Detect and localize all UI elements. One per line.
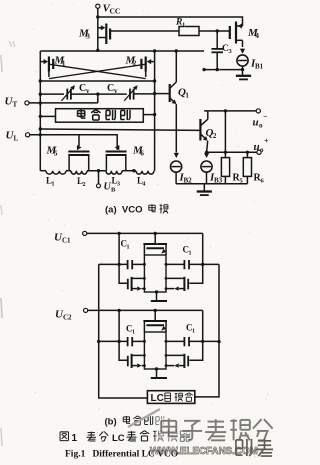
wire M3 gate to R1: [110, 30, 179, 32]
inductors L1 L2 L3 L4: [40, 170, 46, 172]
svg-text:2: 2: [213, 132, 217, 140]
transistor M4: [229, 26, 231, 39]
transistor Q1: [155, 93, 170, 95]
transistor top PMOS: [154, 310, 156, 320]
svg-text:1: 1: [192, 329, 195, 335]
svg-text:v: v: [86, 87, 90, 95]
wire right gate feed: [189, 233, 202, 283]
svg-text:1: 1: [127, 245, 130, 251]
transistor NMOS right: [187, 279, 189, 290]
wire UC1 rail: [87, 232, 203, 234]
svg-text:v: v: [114, 87, 118, 95]
wire left wrap: [99, 264, 148, 398]
wire VCC top rail: [98, 17, 243, 26]
svg-text:o: o: [259, 122, 263, 130]
wire UC2 rail: [88, 309, 203, 311]
ground under IB1: [242, 70, 244, 76]
svg-text:C1: C1: [62, 237, 71, 245]
transistor NMOS left: [127, 279, 129, 290]
wire top rail y51: [40, 50, 204, 52]
box LC tank: [147, 391, 194, 404]
caption fig1 chinese: [60, 431, 68, 433]
wire box leads: [40, 115, 55, 117]
svg-text:2: 2: [83, 182, 86, 188]
svg-text:CC: CC: [110, 7, 121, 16]
ground section a: [203, 184, 205, 192]
capacitor C3: [216, 31, 218, 49]
wire bottom line: [176, 183, 247, 185]
svg-text:3: 3: [86, 32, 90, 40]
wire right wrap: [195, 264, 219, 397]
transistor M6: [115, 145, 120, 150]
svg-text:B1: B1: [255, 63, 264, 71]
svg-text:−: −: [263, 112, 268, 121]
svg-text:o: o: [260, 146, 264, 154]
wire left gate feed: [119, 310, 127, 360]
capacitor C1 left: [99, 340, 127, 342]
transistor NMOS right: [187, 356, 189, 367]
svg-text:(b): (b): [105, 417, 117, 428]
wire inner rect: [144, 255, 166, 292]
transistor top PMOS: [154, 233, 156, 243]
box capacitor array: [56, 109, 144, 123]
wire left gate feed: [119, 233, 127, 283]
node uo+ terminal: [256, 109, 260, 113]
svg-text:+: +: [264, 137, 269, 146]
current source IB3: [204, 153, 209, 158]
svg-text:u: u: [254, 141, 260, 153]
wire R1 to M4 gate: [199, 30, 230, 32]
varactor Cv left: [40, 93, 64, 95]
resistor R5: [224, 111, 226, 158]
wire C3/IB1 bottom: [204, 69, 242, 71]
svg-text:1: 1: [52, 182, 55, 188]
capacitor C1 left: [99, 263, 127, 265]
wire inner rect: [144, 332, 166, 369]
svg-text:B: B: [111, 187, 116, 194]
wire uo- line: [207, 151, 257, 153]
watermark slash: [128, 409, 160, 427]
svg-text:u: u: [253, 117, 259, 129]
svg-text:1: 1: [72, 433, 78, 444]
scan smudge left edge: [1, 55, 2, 72]
svg-text:1: 1: [189, 251, 192, 257]
transistor M5: [78, 135, 80, 146]
wire right gate feed: [189, 310, 202, 360]
svg-text:1: 1: [132, 330, 135, 336]
wire left main vertical: [39, 51, 41, 171]
resistor R1: [179, 27, 199, 36]
wire uo+ line: [204, 110, 256, 112]
svg-text:LC: LC: [112, 433, 125, 444]
svg-text:(a) VCO: (a) VCO: [105, 205, 142, 216]
scan smudge top left: [9, 41, 12, 47]
svg-text:C2: C2: [63, 314, 72, 322]
wire bottom tail: [155, 367, 158, 370]
node VCC terminal: [96, 4, 100, 8]
wire VCC vertical: [97, 8, 99, 50]
transistor NMOS left: [127, 356, 129, 367]
current source IB2: [174, 153, 179, 158]
current source IB1: [240, 49, 245, 54]
svg-text:LC: LC: [151, 393, 164, 404]
svg-text:4: 4: [143, 182, 146, 188]
wire right vertical x154.6: [154, 51, 156, 171]
svg-text:6: 6: [140, 149, 144, 157]
wire UT: [29, 102, 98, 104]
svg-text:1: 1: [185, 91, 189, 99]
wire bottom tail: [155, 290, 158, 293]
transistor M3: [98, 27, 104, 29]
svg-text:3: 3: [117, 182, 120, 188]
svg-text:4: 4: [255, 32, 259, 40]
svg-text:5: 5: [54, 149, 58, 157]
wire rail y81: [40, 80, 154, 82]
transistor Q2: [199, 119, 201, 141]
wire Q1 emitter down: [175, 104, 177, 152]
watermark: [155, 414, 274, 443]
capacitor C1 right: [166, 340, 184, 342]
wire Q2 emitter down: [207, 141, 208, 153]
node uo- terminal: [257, 150, 261, 154]
transistor M2: [148, 61, 155, 63]
svg-text:T: T: [13, 101, 18, 109]
resistor R6: [246, 152, 248, 157]
transistor M1: [40, 61, 47, 63]
wire cross-couple X: [48, 72, 50, 78]
capacitor C1 right: [166, 263, 184, 265]
node UB terminal: [98, 171, 100, 184]
svg-text:L: L: [14, 135, 19, 143]
varactor Cv right: [98, 93, 127, 95]
wire to Q2 base: [40, 129, 199, 130]
wire UL / M5 M6 gate rail: [30, 135, 118, 150]
